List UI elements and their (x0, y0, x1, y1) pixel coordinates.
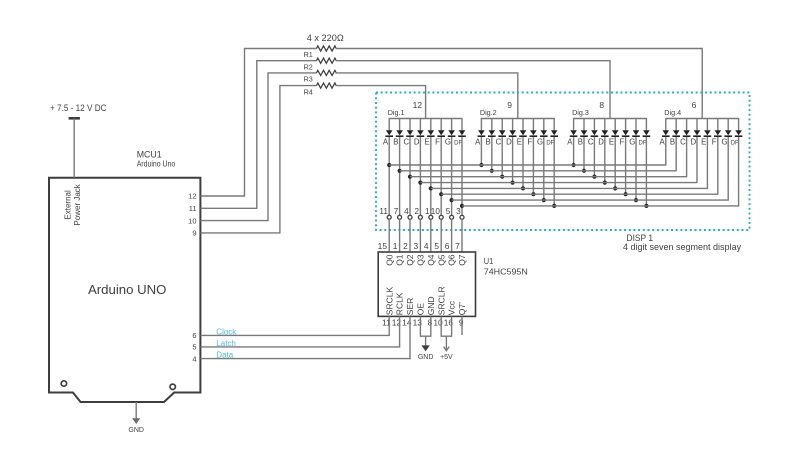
junction Dig.3 D / rail (603, 181, 607, 185)
junction Dig.1 DP / rail (460, 204, 464, 208)
svg-text:F: F (620, 137, 625, 146)
svg-text:5: 5 (446, 207, 451, 216)
wire Dig.4 G cathode to rail corner (727, 137, 729, 200)
LED Dig.2 segment C (496, 119, 506, 147)
wire Dig.1 G cathode to DISP1 pin 5 (451, 137, 453, 215)
svg-text:G: G (445, 137, 451, 146)
svg-text:E: E (701, 137, 706, 146)
svg-text:F: F (712, 137, 717, 146)
svg-text:C: C (403, 137, 409, 146)
svg-text:6: 6 (692, 100, 697, 110)
svg-text:R4: R4 (304, 87, 314, 96)
junction Dig.1 F / rail (439, 192, 443, 196)
svg-text:SRCLR: SRCLR (436, 286, 446, 315)
junction Dig.1 C / rail (408, 175, 412, 179)
LED Dig.2 segment A (475, 119, 485, 147)
IC U1 74HC595N body (378, 252, 475, 316)
svg-text:D: D (598, 137, 604, 146)
wire Dig.1 A cathode to DISP1 pin 11 (388, 137, 390, 215)
wire Dig.3 C cathode to rail (593, 137, 595, 177)
wire DISP1 pin 10 to U1 pin 5 (440, 219, 442, 252)
wire segment E bus rail (431, 187, 708, 189)
svg-text:Q1: Q1 (395, 254, 405, 266)
wire DISP1 pin 11 to U1 pin 15 (388, 219, 390, 252)
pin 11 terminal circle (387, 215, 391, 219)
junction Dig.3 E / rail (613, 186, 617, 190)
svg-text:5: 5 (192, 343, 196, 352)
junction Dig.3 G / rail (634, 198, 638, 202)
svg-text:6: 6 (445, 241, 450, 251)
wire Dig.2 A cathode to rail (480, 137, 482, 165)
wire Dig.3 F cathode to rail (625, 137, 627, 194)
wire segment G bus rail (452, 199, 729, 201)
svg-text:DP: DP (454, 140, 462, 146)
svg-text:B: B (393, 137, 398, 146)
junction Dig.1 G / rail (450, 198, 454, 202)
LED Dig.3 segment F (620, 119, 630, 147)
LED Dig.2 segment G (537, 119, 548, 147)
supply bar symbol (69, 117, 80, 120)
node Dig.4 common anode bar (665, 118, 739, 120)
wire Dig.2 B cathode to rail (491, 137, 493, 171)
LED Dig.3 segment C (588, 119, 598, 147)
wire Dig.1 D cathode to DISP1 pin 2 (419, 137, 421, 215)
svg-text:Q7: Q7 (457, 254, 467, 266)
wire Dig.1 F cathode to DISP1 pin 10 (440, 137, 442, 215)
svg-text:74HC595N: 74HC595N (484, 267, 528, 277)
pin 9 Q7' stub (U1) (461, 316, 463, 335)
LED Dig.3 segment E (609, 119, 619, 147)
svg-text:10: 10 (188, 216, 196, 225)
svg-text:A: A (383, 137, 389, 146)
LED Dig.2 segment F (527, 119, 537, 147)
wire segment D bus rail (420, 182, 697, 184)
svg-text:G: G (721, 137, 727, 146)
LED Dig.1 segment G (445, 119, 456, 147)
svg-text:11: 11 (189, 204, 197, 213)
junction Dig.3 DP / rail (644, 204, 648, 208)
svg-text:G: G (537, 137, 543, 146)
svg-text:7: 7 (455, 241, 460, 251)
LED Dig.1 segment B (393, 119, 403, 147)
svg-text:D: D (690, 137, 696, 146)
wire segment F bus rail (441, 193, 718, 195)
svg-text:D: D (506, 137, 512, 146)
svg-text:8: 8 (599, 100, 604, 110)
resistor R4 (317, 83, 337, 88)
wire DISP1 pin 1 to U1 pin 4 (430, 219, 432, 252)
wire Dig.2 C cathode to rail (501, 137, 503, 177)
svg-text:R1: R1 (304, 50, 313, 59)
LED Dig.4 segment DP (731, 119, 743, 147)
junction Dig.2 B / rail (490, 169, 494, 173)
svg-text:DP: DP (731, 140, 739, 146)
LED Dig.1 segment DP (454, 119, 466, 147)
svg-text:12: 12 (413, 100, 423, 110)
svg-text:4 x 220Ω: 4 x 220Ω (307, 33, 344, 43)
svg-text:Vcc: Vcc (447, 300, 457, 315)
LED Dig.4 segment C (680, 119, 690, 147)
svg-text:15: 15 (378, 241, 388, 251)
resistor R3 (317, 70, 337, 75)
svg-text:B: B (670, 137, 675, 146)
svg-text:SER: SER (405, 298, 415, 315)
wire U1 OE(13)+GND(8) join (420, 316, 430, 336)
svg-text:4: 4 (192, 354, 196, 363)
node Dig.3 common anode bar (573, 118, 647, 120)
wire MCU1 pin 12 to R1 (200, 49, 316, 197)
pin 3 terminal circle (460, 215, 464, 219)
wire segment C bus rail (410, 176, 687, 178)
svg-text:OE: OE (416, 303, 426, 316)
wire DISP1 pin 4 to U1 pin 2 (409, 219, 411, 252)
svg-text:Dig.2: Dig.2 (480, 108, 497, 117)
LED Dig.1 segment C (403, 119, 413, 147)
svg-text:9: 9 (507, 100, 512, 110)
LED Dig.4 segment D (690, 119, 700, 147)
wire Dig.3 D cathode to rail (604, 137, 606, 183)
svg-text:Dig.1: Dig.1 (388, 108, 405, 117)
LED Dig.4 segment E (701, 119, 711, 147)
junction Dig.2 DP / rail (552, 204, 556, 208)
wire DISP1 pin 3 to U1 pin 7 (461, 219, 463, 252)
wire Dig.4 F cathode to rail corner (717, 137, 719, 194)
wire Dig.1 C cathode to DISP1 pin 4 (409, 137, 411, 215)
MCU1 mounting hole left (61, 381, 66, 386)
svg-text:2: 2 (415, 207, 420, 216)
junction Dig.1 A / rail (387, 163, 391, 167)
svg-text:Dig.4: Dig.4 (664, 108, 681, 117)
pin 5 terminal circle (450, 215, 454, 219)
LED Dig.1 segment F (435, 119, 445, 147)
wire DISP1 pin 5 to U1 pin 6 (451, 219, 453, 252)
junction Dig.1 D / rail (418, 181, 422, 185)
LED Dig.1 segment E (424, 119, 434, 147)
junction Dig.2 C / rail (500, 175, 504, 179)
svg-text:3: 3 (414, 241, 419, 251)
wire Clock : MCU1 pin 6 to U1 pin 11 (200, 316, 389, 335)
label External Power Jack (64, 183, 83, 225)
wire Dig.3 A cathode to rail (573, 137, 575, 165)
wire Dig.1 E cathode to DISP1 pin 1 (430, 137, 432, 215)
node Dig.1 common anode bar (389, 118, 463, 120)
wire MCU1 pin 10 to R3 (200, 73, 316, 221)
MCU MCU1 Arduino Uno body (49, 178, 200, 402)
wire Data : MCU1 pin 4 to U1 pin 14 (200, 316, 410, 358)
wire R3 to DISP1 Dig.2 common pin 9 (336, 73, 518, 119)
ground (MCU1) (128, 402, 144, 434)
LED Dig.2 segment DP (546, 119, 558, 147)
junction Dig.3 F / rail (624, 192, 628, 196)
wire U1 SRCLR(10)+Vcc(16) join (441, 316, 451, 336)
svg-text:2: 2 (403, 241, 408, 251)
svg-text:5: 5 (434, 241, 439, 251)
wire Dig.2 DP cathode to rail (553, 137, 555, 206)
ground (U1) (418, 336, 434, 361)
label U1 / 74HC595N (484, 257, 528, 276)
svg-text:Arduino UNO: Arduino UNO (88, 282, 166, 297)
svg-text:Latch: Latch (216, 339, 236, 348)
wire Dig.4 D cathode to rail corner (696, 137, 698, 183)
LED Dig.1 segment D (414, 119, 424, 147)
LED Dig.2 segment B (485, 119, 495, 147)
svg-text:F: F (527, 137, 532, 146)
svg-text:Q6: Q6 (447, 254, 457, 266)
junction Dig.1 E / rail (429, 186, 433, 190)
wire Dig.4 C cathode to rail corner (686, 137, 688, 177)
wire MCU1 pin 11 to R2 (200, 61, 316, 209)
svg-text:6: 6 (192, 331, 196, 340)
power +5V (U1) (440, 336, 453, 361)
svg-text:DP: DP (546, 140, 554, 146)
LED Dig.2 segment E (517, 119, 527, 147)
svg-text:12: 12 (188, 192, 196, 201)
wire Dig.4 B cathode to rail corner (675, 137, 677, 171)
svg-text:G: G (629, 137, 635, 146)
wire R1 to DISP1 Dig.4 common pin 6 (336, 49, 703, 119)
resistor R1 (317, 46, 337, 51)
wire Dig.2 D cathode to rail (512, 137, 514, 183)
pin 7 terminal circle (398, 215, 402, 219)
svg-text:A: A (475, 137, 481, 146)
svg-text:4: 4 (424, 241, 429, 251)
wire Dig.4 DP cathode to rail corner (738, 137, 740, 206)
wire R2 to DISP1 Dig.3 common pin 8 (336, 61, 611, 119)
wire segment DP bus rail (462, 205, 739, 207)
LED Dig.3 segment B (578, 119, 588, 147)
junction Dig.3 C / rail (592, 175, 596, 179)
wire DISP1 pin 7 to U1 pin 1 (399, 219, 401, 252)
svg-text:7: 7 (394, 207, 399, 216)
svg-text:B: B (578, 137, 583, 146)
svg-text:SRCLK: SRCLK (384, 287, 394, 316)
pin 2 terminal circle (418, 215, 422, 219)
svg-text:Q4: Q4 (426, 254, 436, 266)
svg-text:11: 11 (379, 207, 388, 216)
svg-text:DP: DP (639, 140, 647, 146)
svg-text:+5V: +5V (440, 354, 453, 361)
LED Dig.2 segment D (506, 119, 516, 147)
wire Dig.3 B cathode to rail (583, 137, 585, 171)
svg-text:C: C (680, 137, 686, 146)
svg-text:Power Jack: Power Jack (73, 183, 82, 225)
svg-text:Q3: Q3 (416, 254, 426, 266)
svg-text:F: F (435, 137, 440, 146)
svg-text:Data: Data (216, 351, 233, 360)
wire Dig.2 F cathode to rail (532, 137, 534, 194)
wire Dig.1 DP cathode to DISP1 pin 3 (461, 137, 463, 215)
junction Dig.2 A / rail (479, 163, 483, 167)
LED Dig.3 segment D (598, 119, 608, 147)
svg-text:R3: R3 (304, 75, 313, 84)
MCU1 mounting hole right (170, 384, 175, 389)
svg-text:A: A (659, 137, 665, 146)
svg-text:Q0: Q0 (384, 254, 394, 266)
svg-text:Clock: Clock (216, 328, 237, 337)
svg-text:Q7’: Q7’ (457, 302, 467, 315)
LED Dig.3 segment G (629, 119, 640, 147)
pin 10 terminal circle (439, 215, 443, 219)
wire DISP1 pin 2 to U1 pin 3 (419, 219, 421, 252)
wire MCU1 pin 9 to R4 (200, 86, 316, 233)
junction Dig.3 B / rail (582, 169, 586, 173)
junction Dig.1 B / rail (398, 169, 402, 173)
svg-text:C: C (588, 137, 594, 146)
svg-text:GND: GND (128, 427, 144, 434)
wire Dig.4 E cathode to rail corner (706, 137, 708, 188)
junction Dig.2 E / rail (521, 186, 525, 190)
wire R4 to DISP1 Dig.1 common pin 12 (336, 86, 426, 119)
svg-text:1: 1 (425, 207, 430, 216)
LED Dig.4 segment A (659, 119, 669, 147)
svg-text:Q5: Q5 (436, 254, 446, 266)
pin 4 terminal circle (408, 215, 412, 219)
LED Dig.3 segment A (567, 119, 577, 147)
svg-text:+ 7.5 - 12 V DC: + 7.5 - 12 V DC (50, 103, 107, 113)
svg-text:E: E (517, 137, 522, 146)
node Dig.2 common anode bar (481, 118, 555, 120)
junction Dig.2 F / rail (531, 192, 535, 196)
svg-text:B: B (485, 137, 490, 146)
svg-text:A: A (567, 137, 573, 146)
wire Dig.3 E cathode to rail (614, 137, 616, 188)
junction Dig.2 G / rail (542, 198, 546, 202)
LED Dig.3 segment DP (639, 119, 651, 147)
svg-text:E: E (609, 137, 614, 146)
svg-text:U1: U1 (484, 257, 494, 266)
svg-text:C: C (496, 137, 502, 146)
svg-text:1: 1 (393, 241, 398, 251)
wire Dig.3 G cathode to rail (635, 137, 637, 200)
LED Dig.4 segment F (712, 119, 722, 147)
svg-text:Dig.3: Dig.3 (572, 108, 589, 117)
wire Latch : MCU1 pin 5 to U1 pin 12 (200, 316, 399, 347)
svg-text:3: 3 (456, 207, 461, 216)
wire segment B bus rail (400, 170, 677, 172)
svg-text:GND: GND (418, 354, 434, 361)
svg-text:D: D (414, 137, 420, 146)
wire Dig.2 G cathode to rail (543, 137, 545, 200)
wire Dig.3 DP cathode to rail (645, 137, 647, 206)
junction Dig.3 A / rail (572, 163, 576, 167)
wire Dig.1 B cathode to DISP1 pin 7 (399, 137, 401, 215)
wire Dig.2 E cathode to rail (522, 137, 524, 188)
LED Dig.4 segment G (721, 119, 732, 147)
svg-text:9: 9 (192, 229, 196, 238)
svg-text:Arduino Uno: Arduino Uno (137, 159, 176, 169)
LED Dig.4 segment B (670, 119, 680, 147)
svg-text:4 digit seven segment display: 4 digit seven segment display (623, 242, 742, 252)
svg-text:Q2: Q2 (405, 254, 415, 266)
resistor R2 (317, 58, 337, 63)
svg-text:R2: R2 (304, 62, 313, 71)
wire segment A bus rail (389, 164, 666, 166)
svg-text:E: E (424, 137, 429, 146)
svg-text:4: 4 (404, 207, 409, 216)
wire supply to MCU1 power jack (73, 118, 75, 177)
junction Dig.2 D / rail (510, 181, 514, 185)
LED Dig.1 segment A (383, 119, 393, 147)
svg-text:10: 10 (431, 207, 441, 216)
DISP1 package outline (dashed) (376, 93, 750, 231)
svg-text:RCLK: RCLK (395, 292, 405, 315)
svg-text:GND: GND (426, 296, 436, 315)
pin 1 terminal circle (429, 215, 433, 219)
label MCU1 / Arduino Uno (137, 149, 176, 168)
wire Dig.4 A cathode to rail corner (665, 137, 667, 165)
svg-text:External: External (64, 190, 73, 220)
